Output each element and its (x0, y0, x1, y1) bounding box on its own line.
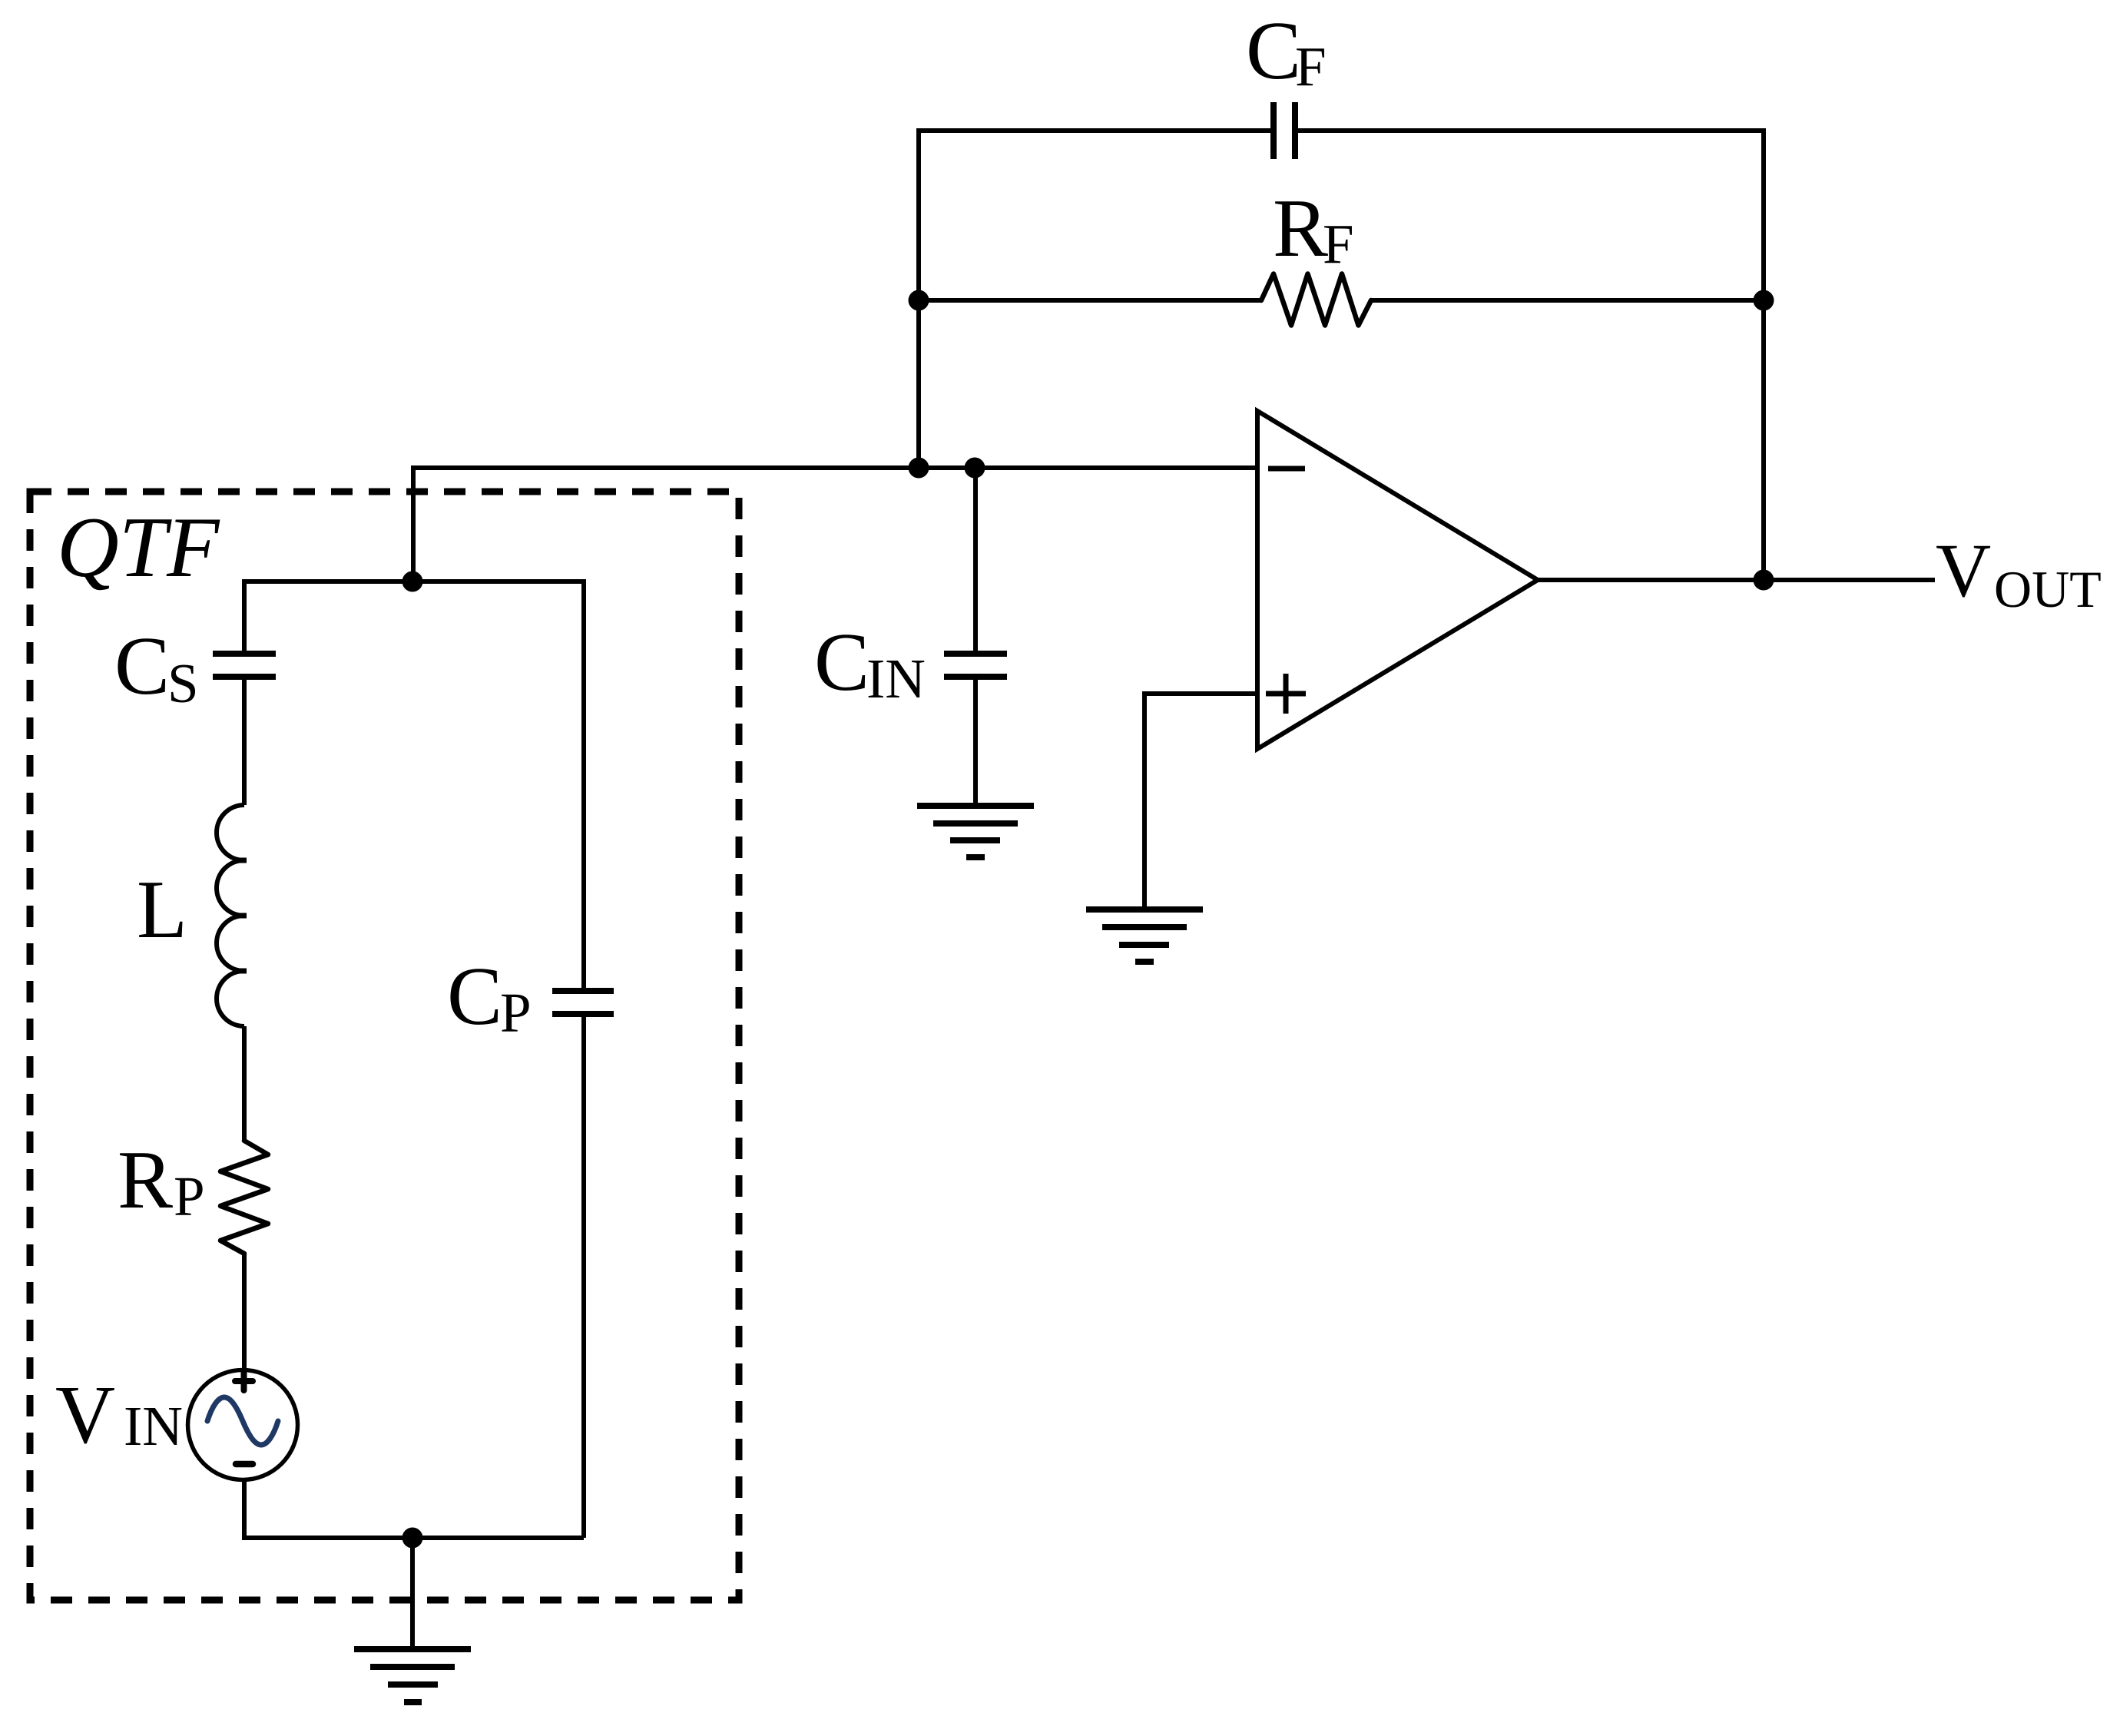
ground CIN (917, 806, 1034, 857)
node feedback left dot (909, 290, 929, 311)
wire non-inverting input (1144, 694, 1255, 909)
wire CS to L (242, 677, 247, 805)
svg-text:L: L (137, 864, 187, 956)
wire inverting-input rail (413, 468, 1255, 581)
wire output rail (1538, 578, 1935, 582)
label RP (118, 1135, 205, 1227)
wire QTF top rail (244, 581, 584, 991)
capacitor CIN (944, 654, 1007, 677)
label CS (114, 621, 199, 714)
resistor RP (220, 1141, 268, 1254)
node A dot right (965, 458, 985, 479)
svg-text:C: C (114, 621, 170, 712)
svg-text:V: V (1936, 528, 1991, 613)
wire RF rail right (1371, 298, 1764, 303)
svg-text:S: S (167, 652, 199, 714)
node A dot left (909, 458, 929, 479)
ground non-inverting (1086, 909, 1203, 962)
svg-text:C: C (1246, 5, 1301, 97)
svg-text:F: F (1323, 213, 1354, 275)
QTF label (57, 500, 220, 595)
wire VIN to bottom rail (244, 1479, 584, 1538)
svg-text:V: V (55, 1370, 115, 1461)
capacitor CS (213, 654, 276, 677)
svg-text:R: R (1273, 183, 1328, 274)
svg-text:C: C (814, 617, 870, 708)
svg-text:P: P (174, 1165, 205, 1227)
wire CP to bottom rail (581, 1014, 586, 1538)
label VOUT (1936, 528, 2102, 618)
svg-text:OUT: OUT (1994, 560, 2102, 618)
wire ground stem QTF (410, 1538, 415, 1649)
capacitor CP (552, 991, 614, 1014)
svg-text:QTF: QTF (57, 500, 220, 595)
QTF box (30, 492, 739, 1600)
svg-text:IN: IN (124, 1395, 183, 1457)
label CF (1246, 5, 1327, 98)
wire CF right to output vertical (1298, 131, 1764, 580)
op-amp U1 (1257, 411, 1538, 749)
label RF (1273, 183, 1354, 275)
resistor RF (1261, 274, 1371, 326)
label CIN (814, 617, 926, 710)
label L (137, 864, 187, 956)
node feedback right dot (1754, 290, 1774, 311)
svg-text:R: R (118, 1135, 173, 1226)
source VIN (188, 1370, 298, 1480)
node QTF top junction (402, 571, 423, 592)
wire feedback left vertical (919, 131, 1270, 468)
node QTF bottom junction (402, 1528, 423, 1549)
label VIN (55, 1370, 183, 1461)
wire RP to VIN (242, 1254, 247, 1370)
label CP (447, 951, 532, 1044)
svg-text:C: C (447, 951, 502, 1042)
wire L to RP (242, 1026, 247, 1141)
inductor L (217, 805, 247, 1026)
svg-text:P: P (500, 982, 532, 1044)
svg-text:IN: IN (866, 648, 926, 710)
ground QTF (354, 1649, 471, 1702)
wire RF rail left (919, 298, 1261, 303)
node output dot (1754, 570, 1774, 591)
svg-text:F: F (1295, 35, 1327, 98)
wire CIN branch (973, 468, 978, 654)
capacitor CF (1274, 102, 1295, 159)
wire CIN to ground (973, 677, 978, 806)
